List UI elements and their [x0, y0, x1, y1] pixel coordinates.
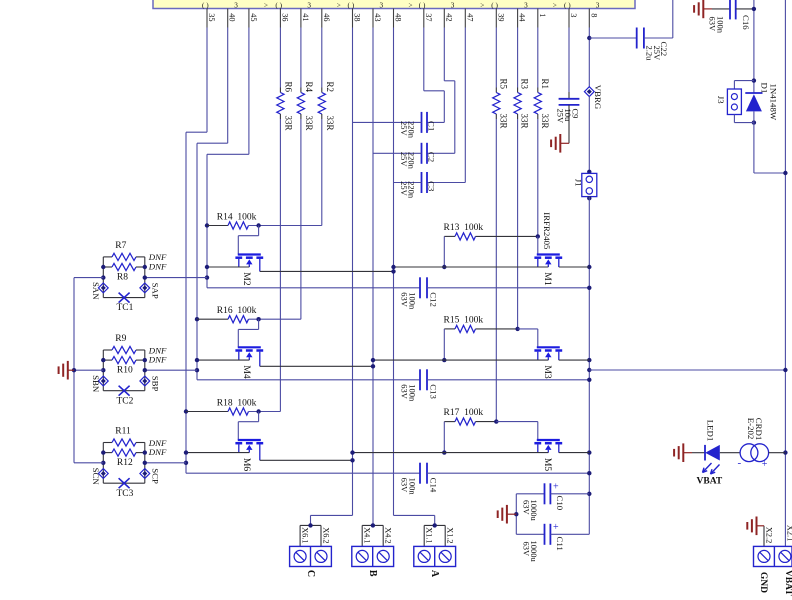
svg-text:B: B [367, 570, 378, 577]
svg-text:GND: GND [758, 572, 768, 593]
svg-text:45: 45 [249, 13, 258, 21]
svg-text:C1: C1 [427, 121, 437, 131]
svg-text:M3: M3 [542, 365, 553, 379]
svg-text:X1.2: X1.2 [446, 527, 455, 543]
svg-text:3: 3 [596, 1, 600, 9]
svg-text:1: 1 [538, 13, 547, 17]
svg-text:25V: 25V [399, 121, 409, 137]
svg-text:X2.1: X2.1 [786, 525, 792, 541]
svg-text:38: 38 [353, 13, 362, 21]
svg-text:C13: C13 [428, 384, 438, 399]
svg-text:SCP: SCP [150, 468, 160, 484]
svg-text:X2.2: X2.2 [765, 527, 774, 543]
svg-text:3: 3 [524, 1, 528, 9]
svg-text:R14 100k: R14 100k [217, 212, 257, 222]
svg-text:R3: R3 [520, 79, 530, 90]
svg-text:25V: 25V [399, 152, 409, 168]
svg-text:SAP: SAP [150, 283, 160, 299]
svg-text:X4.2: X4.2 [384, 527, 393, 543]
svg-text:R12: R12 [117, 458, 133, 468]
svg-text:DNF: DNF [148, 355, 167, 365]
svg-text:R5: R5 [498, 79, 508, 90]
svg-text:J3: J3 [716, 96, 726, 104]
svg-text:>: > [480, 1, 484, 9]
svg-text:+: + [553, 481, 559, 492]
svg-text:VBRG: VBRG [593, 85, 603, 110]
svg-text:46: 46 [322, 13, 331, 21]
svg-text:37: 37 [424, 13, 433, 21]
svg-text:R10: R10 [117, 366, 133, 376]
svg-text:VBAT: VBAT [783, 570, 792, 596]
svg-text:M4: M4 [241, 365, 252, 379]
svg-text:R11: R11 [115, 426, 131, 436]
svg-text:M6: M6 [241, 458, 252, 472]
svg-text:M1: M1 [542, 272, 553, 286]
svg-text:R18 100k: R18 100k [217, 398, 257, 408]
svg-text:SBP: SBP [150, 376, 160, 392]
svg-text:33R: 33R [325, 116, 335, 131]
svg-text:R2: R2 [325, 82, 335, 93]
svg-text:SBN: SBN [91, 375, 101, 393]
svg-text:M2: M2 [241, 272, 252, 286]
svg-text:M5: M5 [542, 458, 553, 472]
svg-text:J1: J1 [574, 179, 584, 187]
svg-text:>: > [553, 1, 557, 9]
svg-text:X1.1: X1.1 [425, 527, 434, 543]
svg-text:( ): ( ) [202, 1, 209, 9]
svg-text:33R: 33R [498, 114, 508, 129]
svg-text:SCN: SCN [91, 468, 101, 486]
svg-text:3: 3 [380, 1, 384, 9]
svg-text:X4.1: X4.1 [363, 527, 372, 543]
svg-text:-: - [738, 457, 742, 469]
svg-text:R4: R4 [304, 82, 314, 93]
svg-text:C: C [305, 570, 316, 577]
svg-text:R9: R9 [115, 334, 126, 344]
svg-text:33R: 33R [283, 116, 293, 131]
svg-text:R8: R8 [117, 273, 128, 283]
svg-text:8: 8 [589, 13, 598, 17]
svg-text:R16 100k: R16 100k [217, 306, 257, 316]
svg-text:39: 39 [496, 13, 505, 21]
svg-text:C10: C10 [555, 496, 565, 511]
svg-text:A: A [429, 570, 440, 578]
svg-text:DNF: DNF [148, 261, 167, 271]
svg-text:( ): ( ) [419, 1, 426, 9]
svg-text:35: 35 [207, 13, 216, 21]
svg-text:E-202: E-202 [746, 418, 756, 440]
svg-text:48: 48 [394, 13, 403, 21]
svg-text:63V: 63V [522, 542, 532, 558]
svg-text:C22: C22 [659, 42, 669, 57]
svg-text:C3: C3 [427, 181, 437, 192]
svg-text:VBAT: VBAT [697, 477, 723, 487]
svg-text:3: 3 [307, 1, 311, 9]
svg-text:+: + [762, 459, 768, 470]
svg-text:X6.1: X6.1 [300, 527, 309, 543]
svg-text:>: > [264, 1, 268, 9]
svg-text:47: 47 [465, 13, 474, 21]
svg-text:25V: 25V [556, 109, 566, 125]
svg-text:63V: 63V [399, 384, 409, 400]
svg-text:D1: D1 [759, 83, 769, 94]
svg-text:R17 100k: R17 100k [444, 408, 484, 418]
svg-text:41: 41 [301, 13, 310, 21]
svg-text:1N4148W: 1N4148W [768, 84, 778, 121]
svg-text:C14: C14 [428, 478, 438, 493]
svg-text:C11: C11 [555, 537, 565, 551]
svg-text:TC2: TC2 [117, 396, 134, 406]
svg-text:LED1: LED1 [706, 420, 716, 442]
svg-text:R7: R7 [115, 241, 126, 251]
svg-text:33R: 33R [520, 114, 530, 129]
svg-text:36: 36 [280, 13, 289, 21]
svg-text:3: 3 [569, 13, 578, 17]
svg-text:3: 3 [234, 1, 238, 9]
svg-text:TC3: TC3 [117, 489, 134, 499]
svg-text:C2: C2 [427, 152, 437, 162]
svg-text:>: > [409, 1, 413, 9]
svg-text:R15 100k: R15 100k [444, 315, 484, 325]
svg-text:( ): ( ) [564, 1, 571, 9]
svg-text:63V: 63V [522, 500, 532, 516]
svg-text:25V: 25V [399, 181, 409, 197]
svg-text:( ): ( ) [275, 1, 282, 9]
svg-text:SAN: SAN [91, 282, 101, 300]
svg-text:100n: 100n [715, 16, 725, 34]
svg-text:( ): ( ) [348, 1, 355, 9]
svg-text:44: 44 [518, 13, 527, 22]
svg-text:42: 42 [444, 13, 453, 21]
svg-text:R6: R6 [283, 82, 293, 93]
svg-text:C12: C12 [428, 292, 438, 307]
svg-text:R1: R1 [540, 79, 550, 90]
svg-text:R13 100k: R13 100k [444, 223, 484, 233]
svg-text:C16: C16 [741, 15, 751, 30]
svg-text:>: > [337, 1, 341, 9]
svg-text:33R: 33R [540, 114, 550, 129]
svg-text:43: 43 [373, 13, 382, 21]
svg-text:X6.2: X6.2 [321, 527, 330, 543]
svg-text:TC1: TC1 [117, 303, 134, 313]
svg-text:+: + [553, 522, 559, 533]
svg-text:DNF: DNF [148, 447, 167, 457]
svg-text:IRFR2405: IRFR2405 [542, 212, 552, 250]
svg-text:3: 3 [451, 1, 455, 9]
svg-text:( ): ( ) [491, 1, 498, 9]
svg-text:33R: 33R [304, 116, 314, 131]
svg-text:63V: 63V [399, 478, 409, 494]
svg-text:63V: 63V [399, 292, 409, 308]
svg-text:40: 40 [228, 13, 237, 21]
